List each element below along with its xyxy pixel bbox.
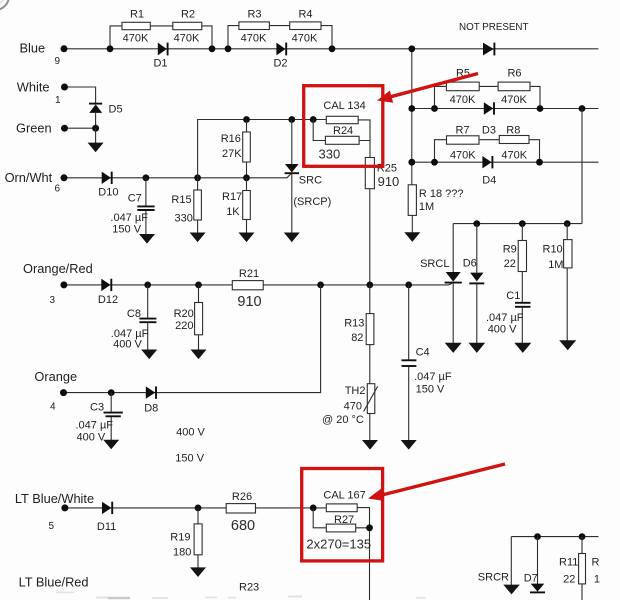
wire R20 stems	[198, 285, 200, 350]
svg-text:D10: D10	[98, 186, 118, 198]
label R12 (cut off)	[592, 556, 601, 585]
svg-text:22: 22	[504, 258, 516, 270]
svg-text:330: 330	[175, 213, 193, 225]
wire Orange/Red row and SRCL gate	[64, 283, 453, 285]
resistor R13 82	[344, 314, 374, 345]
wire R10 stems	[566, 224, 568, 341]
wire R15 stem	[197, 178, 199, 233]
resistor CAL 134 (top)	[323, 100, 365, 124]
node R5 bypass left	[431, 105, 438, 112]
capacitor C4 .047uF 150V	[402, 347, 452, 396]
svg-text:R1: R1	[130, 9, 144, 21]
node Orn/Wht at R17	[243, 174, 250, 181]
svg-text:R21: R21	[239, 268, 259, 280]
resistor R2 470K	[173, 9, 202, 45]
resistor R4 470K	[290, 9, 321, 45]
svg-text:R4: R4	[298, 9, 312, 21]
svg-text:R24: R24	[333, 125, 353, 137]
wire R1-R2 bypass	[110, 26, 212, 49]
node rail at D6	[473, 220, 480, 227]
node Orange/Red at R20	[195, 282, 202, 289]
svg-text:R8: R8	[506, 124, 520, 136]
ground below C8	[141, 350, 157, 360]
capacitor C3 .047uF 400V	[76, 401, 123, 443]
wire R25 down to Orange/Red row	[369, 189, 371, 285]
svg-text:White: White	[17, 80, 50, 95]
svg-text:CAL 167: CAL 167	[323, 489, 365, 501]
wire CAL134 right branch	[358, 120, 370, 158]
ground below R18	[404, 232, 420, 242]
svg-text:R25: R25	[377, 163, 397, 175]
wire C7 stem	[145, 178, 147, 235]
resistor R1 470K	[122, 9, 150, 45]
svg-text:R3: R3	[247, 9, 261, 21]
svg-text:SRCR: SRCR	[478, 572, 509, 584]
node Blue bypass2 right	[329, 45, 336, 52]
wire R5-R6 bypass	[435, 86, 541, 108]
calibration box CAL 134 (red)	[304, 86, 383, 167]
node R7 row at vertical	[408, 159, 415, 166]
svg-text:C7: C7	[128, 193, 142, 205]
resistor R27 2x270=135	[306, 514, 371, 551]
resistor R18 1M	[408, 185, 463, 216]
ground below SRCL	[445, 343, 462, 353]
node LT Blue/White pin	[61, 504, 68, 511]
wire D7 stem	[537, 537, 539, 585]
resistor R11 22	[559, 554, 586, 586]
svg-text:C1: C1	[506, 290, 520, 302]
svg-text:180: 180	[173, 547, 191, 559]
svg-text:470K: 470K	[123, 33, 149, 45]
svg-text:400 V: 400 V	[77, 432, 106, 444]
svg-text:TH2: TH2	[345, 385, 366, 397]
wire vertical from Blue row to R18	[411, 49, 413, 185]
diode D5	[89, 104, 123, 116]
svg-text:C8: C8	[127, 308, 141, 320]
svg-text:R20: R20	[174, 308, 194, 320]
svg-text:D1: D1	[153, 58, 167, 70]
svg-text:330: 330	[319, 147, 341, 162]
wire CAL167 left branch	[313, 508, 326, 528]
svg-text:470K: 470K	[241, 33, 267, 45]
node row at R11	[579, 533, 586, 540]
node Orange at C3	[108, 389, 115, 396]
svg-text:3: 3	[50, 295, 56, 306]
svg-text:910: 910	[378, 174, 400, 189]
wire Blue row main	[64, 48, 599, 50]
node top rail at SRC	[288, 116, 295, 123]
wire CAL167 right branch	[356, 508, 370, 600]
resistor R8 470K	[499, 124, 529, 161]
wire C3 stems	[110, 393, 112, 441]
svg-text:5: 5	[49, 521, 55, 532]
svg-text:9: 9	[55, 56, 61, 67]
node row at D7	[534, 533, 541, 540]
node Orange/Red at C4	[405, 282, 412, 289]
svg-text:Green: Green	[16, 121, 52, 136]
resistor R10 1M	[543, 240, 573, 271]
diode D2	[273, 43, 287, 70]
svg-text:400 V: 400 V	[113, 339, 142, 351]
diode D7	[524, 572, 545, 592]
svg-text:R23: R23	[239, 581, 259, 593]
ground below R20	[191, 350, 207, 360]
resistor R25 910	[365, 158, 399, 189]
svg-text:1: 1	[594, 574, 600, 586]
node Orange pin	[60, 389, 67, 396]
node top rail at CAL134	[310, 116, 317, 123]
svg-text:R27: R27	[334, 514, 354, 526]
svg-text:1M: 1M	[419, 201, 434, 213]
svg-text:1M: 1M	[548, 259, 563, 271]
node Orange/Red at C8	[144, 282, 151, 289]
node R5 bypass right	[537, 105, 544, 112]
svg-text:C4: C4	[416, 347, 430, 359]
wire R3-R4 bypass	[228, 26, 332, 49]
ground below C4	[401, 440, 417, 450]
node Blue bypass1 left	[107, 45, 114, 52]
svg-text:470K: 470K	[501, 94, 527, 106]
wire D6 stems	[476, 224, 478, 344]
resistor CAL 167 (top)	[323, 489, 365, 511]
ground below SRC	[284, 233, 300, 243]
node White pin	[61, 84, 68, 91]
wire Green row	[65, 127, 96, 129]
node Orange/Red pin	[60, 281, 67, 288]
node R7 bypass right	[536, 159, 543, 166]
node Blue bypass1 right	[209, 45, 216, 52]
resistor R17 1K	[222, 191, 250, 220]
svg-text:.047 µF: .047 µF	[414, 371, 452, 383]
wire from R15 node up and top rail to CAL134	[198, 120, 327, 178]
svg-text:4: 4	[50, 402, 56, 413]
thermistor TH2 470 @20C	[322, 384, 378, 426]
svg-text:SRCL: SRCL	[420, 258, 449, 270]
thyristor SRC	[285, 164, 332, 208]
svg-text:.047 µF: .047 µF	[486, 312, 524, 324]
diode NOT PRESENT	[459, 22, 529, 56]
node Blue at vertical	[408, 45, 415, 52]
resistor R24 330	[319, 125, 360, 161]
svg-text:470K: 470K	[501, 149, 527, 161]
wire SRCL anode/cathode	[452, 224, 454, 344]
svg-text:D7: D7	[524, 572, 538, 584]
svg-text:@ 20 °C: @ 20 °C	[322, 414, 364, 426]
svg-text:.047 µF: .047 µF	[110, 212, 148, 224]
wire R9 stems	[521, 224, 523, 344]
node rail at R9	[519, 220, 526, 227]
svg-text:470K: 470K	[450, 94, 476, 106]
diode D10	[98, 172, 118, 199]
svg-text:C3: C3	[90, 401, 104, 413]
ground SRCR	[478, 572, 520, 595]
svg-text:150 V: 150 V	[416, 384, 445, 396]
node R7 bypass left	[431, 159, 438, 166]
wire R19 stems	[197, 508, 199, 568]
svg-text:910: 910	[237, 294, 261, 310]
wire SRC anode and cathode	[291, 120, 293, 233]
svg-text:R10: R10	[543, 244, 563, 256]
node Orange/Red at R13	[366, 282, 373, 289]
svg-text:27K: 27K	[222, 148, 242, 160]
diode D11	[97, 502, 116, 533]
wire SRCL top rail	[453, 223, 582, 225]
node Blue pin	[61, 45, 68, 52]
wire CAL134 left branch	[313, 120, 325, 141]
resistor R6 470K	[498, 68, 530, 107]
resistor R9 22	[503, 241, 527, 272]
node CAL167 left	[310, 505, 317, 512]
ground below C7	[139, 234, 155, 244]
capacitor C7 .047uF 150V	[110, 193, 154, 236]
node CAL167 right	[366, 524, 373, 531]
svg-text:R15: R15	[171, 194, 191, 206]
resistor R21 910	[232, 268, 263, 310]
ground below C1	[514, 343, 531, 353]
ground below C3	[103, 440, 119, 450]
svg-text:1: 1	[55, 95, 61, 106]
wire R17 stems	[246, 178, 248, 233]
resistor R16 27K	[221, 132, 251, 162]
node Orn/Wht at R15	[194, 174, 201, 181]
svg-text:82: 82	[351, 332, 363, 344]
diode D12	[98, 279, 118, 306]
wire R18 to ground	[411, 215, 413, 232]
resistor R20 220	[174, 303, 203, 335]
svg-text:R 18 ???: R 18 ???	[419, 188, 464, 200]
svg-text:R6: R6	[507, 68, 521, 80]
resistor R15 330	[171, 190, 201, 225]
wire SRCR row	[511, 536, 598, 538]
svg-text:2x270=135: 2x270=135	[306, 537, 371, 552]
wire D5 to Green row	[95, 113, 97, 128]
ground below R10	[559, 340, 576, 350]
svg-text:1K: 1K	[226, 206, 240, 218]
node Orn/Wht at C7	[143, 174, 150, 181]
wire R16 stems	[246, 120, 248, 178]
svg-text:LT Blue/White: LT Blue/White	[15, 491, 94, 506]
svg-text:Orange/Red: Orange/Red	[23, 261, 93, 276]
svg-text:220: 220	[175, 320, 193, 332]
svg-text:R2: R2	[181, 9, 195, 21]
resistor R3 470K	[239, 9, 270, 45]
node rail at R10	[564, 220, 571, 227]
resistor R5 470K	[446, 68, 479, 107]
wire SRCR stem	[510, 537, 512, 585]
wire Orange row and riser	[64, 285, 321, 393]
diode D1	[153, 43, 167, 70]
wire R5-R6 row	[412, 108, 599, 110]
wire R7-R8 row	[412, 161, 599, 163]
ground below R19	[190, 567, 206, 577]
svg-text:D4: D4	[482, 174, 496, 186]
svg-text:470K: 470K	[292, 33, 318, 45]
svg-text:470: 470	[344, 400, 362, 412]
node Green junction	[92, 125, 99, 132]
ground below R17	[239, 233, 255, 243]
svg-text:R7: R7	[455, 125, 469, 137]
svg-text:R11: R11	[559, 556, 578, 568]
svg-text:D6: D6	[463, 257, 477, 269]
svg-text:D2: D2	[273, 58, 287, 70]
wire LT Blue/White row	[65, 507, 326, 509]
resistor R7 470K	[447, 125, 480, 162]
node R5 row at vertical	[408, 105, 415, 112]
svg-text:(SRCP): (SRCP)	[293, 196, 331, 208]
svg-text:NOT PRESENT: NOT PRESENT	[459, 22, 529, 33]
wire C8 stems	[147, 285, 149, 350]
svg-text:R19: R19	[170, 532, 190, 544]
svg-text:680: 680	[231, 518, 255, 534]
node Orange/Red at Orange riser	[317, 282, 324, 289]
svg-text:R16: R16	[221, 133, 241, 145]
svg-text:D12: D12	[98, 294, 118, 306]
red arrow to CAL 167	[368, 464, 505, 501]
diode D6	[463, 257, 485, 283]
wire Green to ground	[95, 128, 97, 143]
node top rail at R16	[243, 116, 250, 123]
svg-text:D11: D11	[97, 521, 116, 533]
svg-text:470K: 470K	[450, 149, 476, 161]
svg-text:CAL 134: CAL 134	[323, 100, 365, 112]
svg-text:Orn/Wht: Orn/Wht	[5, 170, 53, 185]
node Orn/Wht pin	[61, 174, 68, 181]
capacitor C8 .047uF 400V	[111, 308, 157, 350]
diode D4	[482, 156, 496, 186]
red arrow to CAL 134	[377, 74, 478, 103]
calibration box CAL 167 (red)	[302, 469, 383, 561]
svg-text:D5: D5	[109, 104, 123, 116]
svg-text:LT Blue/Red: LT Blue/Red	[19, 574, 89, 589]
diode D3	[482, 102, 496, 136]
svg-text:R17: R17	[222, 191, 242, 203]
capacitor C1 .047uF 400V	[486, 290, 531, 336]
wire White pin to D5	[65, 87, 96, 103]
ground below D6	[469, 343, 486, 353]
node Green pin	[61, 125, 68, 132]
node Blue bypass2 left	[225, 45, 232, 52]
wire R11 stems	[581, 537, 583, 600]
diode D8	[144, 386, 158, 414]
svg-text:Blue: Blue	[20, 41, 46, 56]
ground below R15	[190, 233, 206, 243]
svg-text:22: 22	[563, 574, 575, 586]
ghost marks bottom edge	[56, 592, 426, 600]
wire x582 vertical	[581, 109, 583, 224]
node R5 row right	[579, 105, 586, 112]
node LT Blue/White at R19	[195, 505, 202, 512]
svg-text:400 V: 400 V	[176, 427, 205, 439]
svg-text:D8: D8	[144, 402, 158, 414]
thyristor SRCL	[420, 258, 462, 283]
resistor R26 680	[226, 491, 255, 534]
wire R7-R8 bypass	[435, 140, 540, 163]
svg-text:Orange: Orange	[34, 369, 77, 384]
wire R13 stems	[369, 285, 371, 441]
svg-text:R9: R9	[503, 244, 517, 256]
svg-text:D3: D3	[482, 124, 496, 136]
svg-text:400 V: 400 V	[488, 324, 517, 336]
svg-text:6: 6	[55, 184, 61, 195]
svg-text:R: R	[592, 556, 600, 568]
wire C4 stems	[408, 285, 410, 441]
svg-text:SRC: SRC	[299, 175, 322, 187]
svg-text:.047 µF: .047 µF	[76, 420, 114, 432]
svg-text:470K: 470K	[174, 33, 200, 45]
svg-text:150 V: 150 V	[175, 453, 204, 465]
ground below Green	[88, 143, 104, 153]
svg-text:R26: R26	[232, 491, 252, 503]
resistor R19 180	[170, 524, 202, 559]
svg-text:R13: R13	[344, 318, 364, 330]
ground below TH2	[362, 440, 378, 450]
svg-text:150 V: 150 V	[112, 224, 141, 236]
wire Orn/Wht row and SRC gate	[64, 173, 292, 178]
